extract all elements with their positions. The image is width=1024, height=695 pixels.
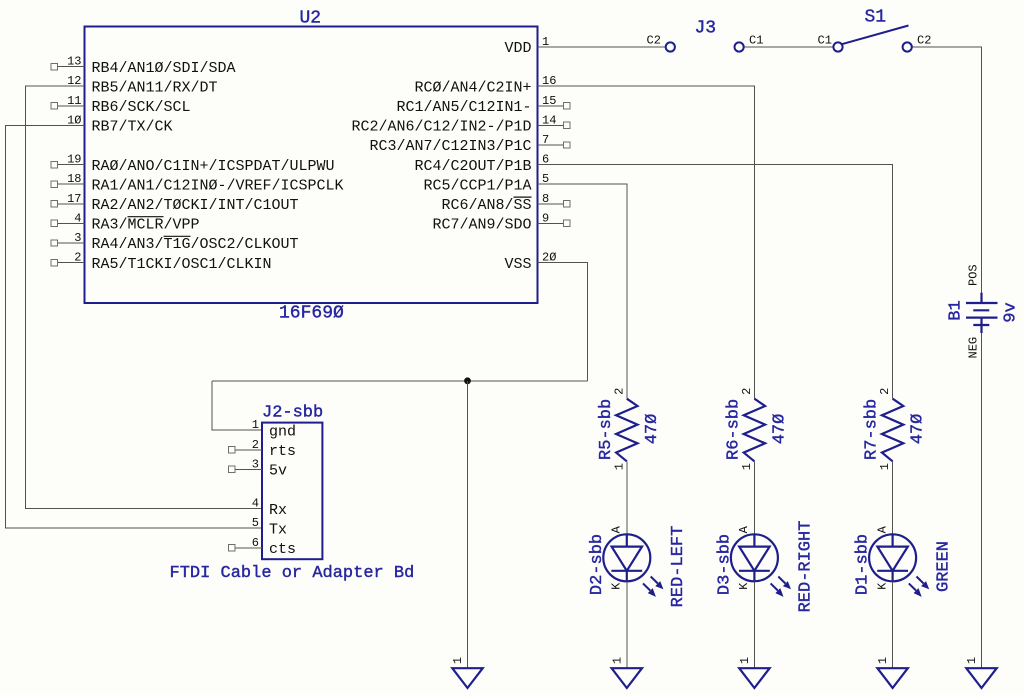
IC U2 pin 6 (RC4) — [414, 153, 549, 175]
wire pin12 RB5 to J2 Rx — [25, 86, 262, 508]
svg-text:4: 4 — [252, 497, 259, 511]
ground (D2-sbb) — [610, 657, 642, 688]
svg-text:A: A — [737, 525, 751, 533]
IC U2 pin 12 (RB5) — [67, 74, 217, 96]
svg-text:19: 19 — [67, 153, 81, 167]
svg-text:1: 1 — [610, 657, 624, 664]
wire VDD pin1 to J3 — [538, 46, 666, 48]
wire pin6 RC4 to R7-sbb — [538, 165, 893, 399]
label C1 (S1 left) — [818, 34, 832, 48]
connector J3 refdes — [695, 19, 717, 39]
wire D3-sbb to ground — [753, 581, 755, 668]
svg-text:2: 2 — [740, 388, 754, 395]
wire battery NEG to ground — [981, 333, 983, 668]
svg-text:D3-sbb: D3-sbb — [715, 534, 734, 595]
resistor R6-sbb refdes — [724, 399, 743, 460]
svg-text:2: 2 — [612, 388, 626, 395]
svg-text:RA1/AN1/C12INØ-/VREF/ICSPCLK: RA1/AN1/C12INØ-/VREF/ICSPCLK — [92, 177, 344, 194]
ground (D1-sbb) — [876, 657, 908, 688]
switch S1 blade — [842, 26, 909, 45]
IC U2 pin 11 (RB6) — [51, 94, 191, 116]
resistor R7-sbb pin 2 — [878, 388, 892, 395]
IC U2 pin 2 (RA5) — [51, 251, 272, 273]
ground (D3-sbb) — [738, 657, 770, 688]
IC U2 pin 5 (RC5) — [423, 172, 549, 194]
svg-text:Rx: Rx — [269, 502, 287, 519]
IC U2 pin 3 (RA4) — [51, 231, 299, 253]
svg-text:1: 1 — [740, 463, 754, 470]
svg-text:VSS: VSS — [504, 256, 531, 273]
svg-text:3: 3 — [74, 231, 81, 245]
svg-text:RA2/AN2/TØCKI/INT/C1OUT: RA2/AN2/TØCKI/INT/C1OUT — [92, 197, 299, 214]
LED D3-sbb cathode label K — [737, 582, 751, 590]
svg-text:GREEN: GREEN — [935, 541, 954, 592]
wire R6-sbb to D3-sbb — [753, 461, 755, 534]
svg-text:RCØ/AN4/C2IN+: RCØ/AN4/C2IN+ — [414, 79, 531, 96]
wire D2-sbb to ground — [626, 581, 628, 668]
LED D2-sbb — [603, 534, 663, 597]
battery B1 refdes — [947, 300, 966, 320]
svg-text:D1-sbb: D1-sbb — [854, 534, 873, 595]
svg-text:1: 1 — [451, 657, 465, 664]
resistor R7-sbb refdes — [863, 399, 882, 460]
junction dot ground bus — [464, 377, 471, 384]
connector J2-sbb value label — [170, 564, 415, 583]
svg-text:RC2/AN6/C12/IN2-/P1D: RC2/AN6/C12/IN2-/P1D — [351, 119, 531, 136]
wire R7-sbb to D1-sbb — [892, 461, 894, 534]
IC U2 pin 19 (RA&#216;) — [51, 153, 335, 175]
svg-text:RC1/AN5/C12IN1-: RC1/AN5/C12IN1- — [396, 99, 531, 116]
LED D2-sbb refdes — [588, 534, 607, 595]
svg-text:1: 1 — [878, 463, 892, 470]
resistor R5-sbb value 470 — [643, 414, 662, 445]
svg-text:K: K — [610, 582, 624, 590]
svg-text:C2: C2 — [917, 34, 931, 48]
svg-text:4: 4 — [74, 211, 81, 225]
svg-text:RED-RIGHT: RED-RIGHT — [796, 521, 815, 613]
svg-text:K: K — [875, 582, 889, 590]
svg-text:5: 5 — [252, 516, 259, 530]
wire J2 pin1 gnd up to ground bus — [212, 381, 262, 430]
svg-text:RC4/C2OUT/P1B: RC4/C2OUT/P1B — [414, 158, 531, 175]
svg-text:FTDI Cable or Adapter Bd: FTDI Cable or Adapter Bd — [170, 564, 415, 583]
IC U2 body — [85, 27, 538, 304]
IC U2 pin 16 (RC&#216;) — [414, 74, 556, 96]
IC U2 pin 14 (RC2) — [351, 113, 570, 135]
svg-text:RA4/AN3/T1G/OSC2/CLKOUT: RA4/AN3/T1G/OSC2/CLKOUT — [92, 236, 299, 253]
svg-text:RC3/AN7/C12IN3/P1C: RC3/AN7/C12IN3/P1C — [369, 138, 531, 155]
svg-text:C2: C2 — [647, 34, 661, 48]
IC U2 pin 2&#216; (VSS) — [504, 251, 556, 273]
IC U2 pin 1&#216; (RB7) — [67, 113, 172, 135]
switch S1 throw C2 — [903, 42, 912, 51]
svg-text:RC6/AN8/SS: RC6/AN8/SS — [441, 197, 531, 214]
resistor R6-sbb pin 2 — [740, 388, 754, 395]
svg-text:2: 2 — [878, 388, 892, 395]
svg-text:K: K — [737, 582, 751, 590]
LED D3-sbb anode label A — [737, 525, 751, 533]
ground (bus) — [451, 657, 483, 688]
resistor R7-sbb — [882, 399, 903, 462]
svg-text:47Ø: 47Ø — [643, 414, 662, 445]
LED D2-sbb cathode label K — [610, 582, 624, 590]
connector J3 pad C2 — [666, 42, 675, 51]
IC U2 pin 4 (RA3) — [51, 211, 200, 233]
svg-text:8: 8 — [542, 192, 549, 206]
LED D3-sbb — [731, 534, 791, 597]
svg-text:cts: cts — [269, 541, 296, 558]
svg-text:14: 14 — [542, 113, 556, 127]
LED D2-sbb value RED-LEFT — [669, 526, 688, 608]
svg-text:RA5/T1CKI/OSC1/CLKIN: RA5/T1CKI/OSC1/CLKIN — [92, 256, 272, 273]
svg-text:17: 17 — [67, 192, 81, 206]
svg-text:Tx: Tx — [269, 521, 287, 538]
battery label NEG — [967, 337, 981, 359]
LED D1-sbb cathode label K — [875, 582, 889, 590]
svg-text:VDD: VDD — [504, 40, 531, 57]
svg-text:POS: POS — [967, 264, 981, 286]
svg-text:A: A — [610, 525, 624, 533]
svg-text:B1: B1 — [947, 300, 966, 320]
resistor R5-sbb pin 2 — [612, 388, 626, 395]
IC U2 pin 1 (VDD) — [504, 35, 549, 57]
resistor R6-sbb pin 1 — [740, 463, 754, 470]
svg-text:C1: C1 — [818, 34, 832, 48]
IC U2 pin 18 (RA1) — [51, 172, 344, 194]
wire pin5 RC5 to R5-sbb — [538, 184, 627, 399]
svg-text:1: 1 — [612, 463, 626, 470]
resistor R6-sbb value 470 — [770, 414, 789, 445]
IC U2 pin 15 (RC1) — [396, 94, 570, 116]
svg-text:15: 15 — [542, 94, 556, 108]
connector J2-sbb pin 6 (cts) — [229, 536, 297, 558]
IC U2 pin 7 (RC3) — [369, 133, 570, 155]
wire J3 to S1 — [744, 46, 833, 48]
IC U2 value 16F690 — [279, 304, 344, 324]
svg-text:RC7/AN9/SDO: RC7/AN9/SDO — [432, 217, 531, 234]
svg-text:47Ø: 47Ø — [770, 414, 789, 445]
wire S1 to battery POS — [912, 47, 982, 293]
wire D1-sbb to ground — [892, 581, 894, 668]
label C1 (J3 right) — [749, 34, 763, 48]
IC U2 pin 8 (RC6) — [441, 192, 570, 214]
resistor R5-sbb pin 1 — [612, 463, 626, 470]
svg-text:NEG: NEG — [967, 337, 981, 359]
svg-text:6: 6 — [252, 536, 259, 550]
LED D1-sbb value GREEN — [935, 541, 954, 592]
svg-text:gnd: gnd — [269, 423, 296, 440]
wire R5-sbb to D2-sbb — [626, 461, 628, 534]
connector J2-sbb body — [262, 423, 322, 560]
svg-text:18: 18 — [67, 172, 81, 186]
svg-text:3: 3 — [252, 457, 259, 471]
svg-text:9v: 9v — [1002, 302, 1021, 322]
IC U2 refdes — [300, 9, 322, 29]
svg-text:1: 1 — [965, 657, 979, 664]
svg-text:R7-sbb: R7-sbb — [863, 399, 882, 460]
wire pin20 VSS down to ground bus — [538, 263, 588, 381]
battery label POS — [967, 264, 981, 286]
LED D1-sbb refdes — [854, 534, 873, 595]
svg-text:47Ø: 47Ø — [909, 414, 928, 445]
overline T1G (pin 3 label) — [164, 235, 191, 237]
svg-text:5v: 5v — [269, 463, 287, 480]
LED D3-sbb value RED-RIGHT — [796, 521, 815, 613]
svg-text:A: A — [875, 525, 889, 533]
svg-text:S1: S1 — [865, 8, 887, 28]
svg-text:R6-sbb: R6-sbb — [724, 399, 743, 460]
IC U2 pin 13 (RB4) — [51, 55, 236, 77]
svg-text:RA3/MCLR/VPP: RA3/MCLR/VPP — [92, 217, 200, 234]
LED D1-sbb — [869, 534, 929, 597]
connector J2-sbb pin 5 (Tx) — [252, 516, 287, 538]
svg-text:J3: J3 — [695, 19, 717, 39]
svg-text:1: 1 — [252, 418, 259, 432]
svg-text:9: 9 — [542, 211, 549, 225]
svg-text:R5-sbb: R5-sbb — [597, 399, 616, 460]
svg-text:C1: C1 — [749, 34, 763, 48]
LED D3-sbb refdes — [715, 534, 734, 595]
svg-text:RB7/TX/CK: RB7/TX/CK — [92, 119, 173, 136]
svg-text:2: 2 — [74, 251, 81, 265]
switch S1 refdes — [865, 8, 887, 28]
label C2 (J3 left) — [647, 34, 661, 48]
wire pin10 RB7 to J2 Tx — [6, 125, 262, 528]
resistor R6-sbb — [744, 399, 765, 462]
svg-text:U2: U2 — [300, 9, 322, 29]
svg-text:7: 7 — [542, 133, 549, 147]
svg-text:11: 11 — [67, 94, 81, 108]
svg-text:RB5/AN11/RX/DT: RB5/AN11/RX/DT — [92, 79, 218, 96]
svg-text:2: 2 — [252, 438, 259, 452]
svg-text:RC5/CCP1/P1A: RC5/CCP1/P1A — [423, 177, 531, 194]
overline MCLR (pin 4 label) — [128, 216, 164, 218]
IC U2 pin 17 (RA2) — [51, 192, 299, 214]
resistor R5-sbb refdes — [597, 399, 616, 460]
switch S1 pole C1 — [833, 42, 842, 51]
svg-text:1: 1 — [738, 657, 752, 664]
battery B1 value 9v — [1002, 302, 1021, 322]
svg-text:rts: rts — [269, 443, 296, 460]
svg-text:D2-sbb: D2-sbb — [588, 534, 607, 595]
ground bus wire — [212, 380, 587, 382]
resistor R5-sbb — [616, 399, 637, 462]
connector J2-sbb pin 4 (Rx) — [252, 497, 287, 519]
connector J2-sbb pin 1 (gnd) — [252, 418, 296, 440]
overline SS (pin 8 label) — [514, 196, 532, 198]
svg-text:RB4/AN1Ø/SDI/SDA: RB4/AN1Ø/SDI/SDA — [92, 60, 236, 77]
label C2 (S1 right) — [917, 34, 931, 48]
resistor R7-sbb pin 1 — [878, 463, 892, 470]
connector J2-sbb refdes — [262, 404, 323, 423]
svg-text:16F69Ø: 16F69Ø — [279, 304, 344, 324]
wire pin16 RC0 to R6-sbb — [538, 86, 755, 399]
LED D1-sbb anode label A — [875, 525, 889, 533]
svg-text:RED-LEFT: RED-LEFT — [669, 526, 688, 608]
connector J3 pad C1 — [735, 42, 744, 51]
svg-text:RB6/SCK/SCL: RB6/SCK/SCL — [92, 99, 191, 116]
IC U2 pin 9 (RC7) — [432, 211, 570, 233]
LED D2-sbb anode label A — [610, 525, 624, 533]
svg-text:13: 13 — [67, 55, 81, 69]
connector J2-sbb pin 2 (rts) — [229, 438, 297, 460]
wire junction down to ground — [467, 381, 469, 668]
ground (battery) — [965, 657, 997, 688]
svg-text:RAØ/ANO/C1IN+/ICSPDAT/ULPWU: RAØ/ANO/C1IN+/ICSPDAT/ULPWU — [92, 158, 335, 175]
svg-text:J2-sbb: J2-sbb — [262, 404, 323, 423]
connector J2-sbb pin 3 (5v) — [229, 457, 288, 479]
resistor R7-sbb value 470 — [909, 414, 928, 445]
svg-text:1: 1 — [876, 657, 890, 664]
battery B1 — [966, 293, 998, 333]
